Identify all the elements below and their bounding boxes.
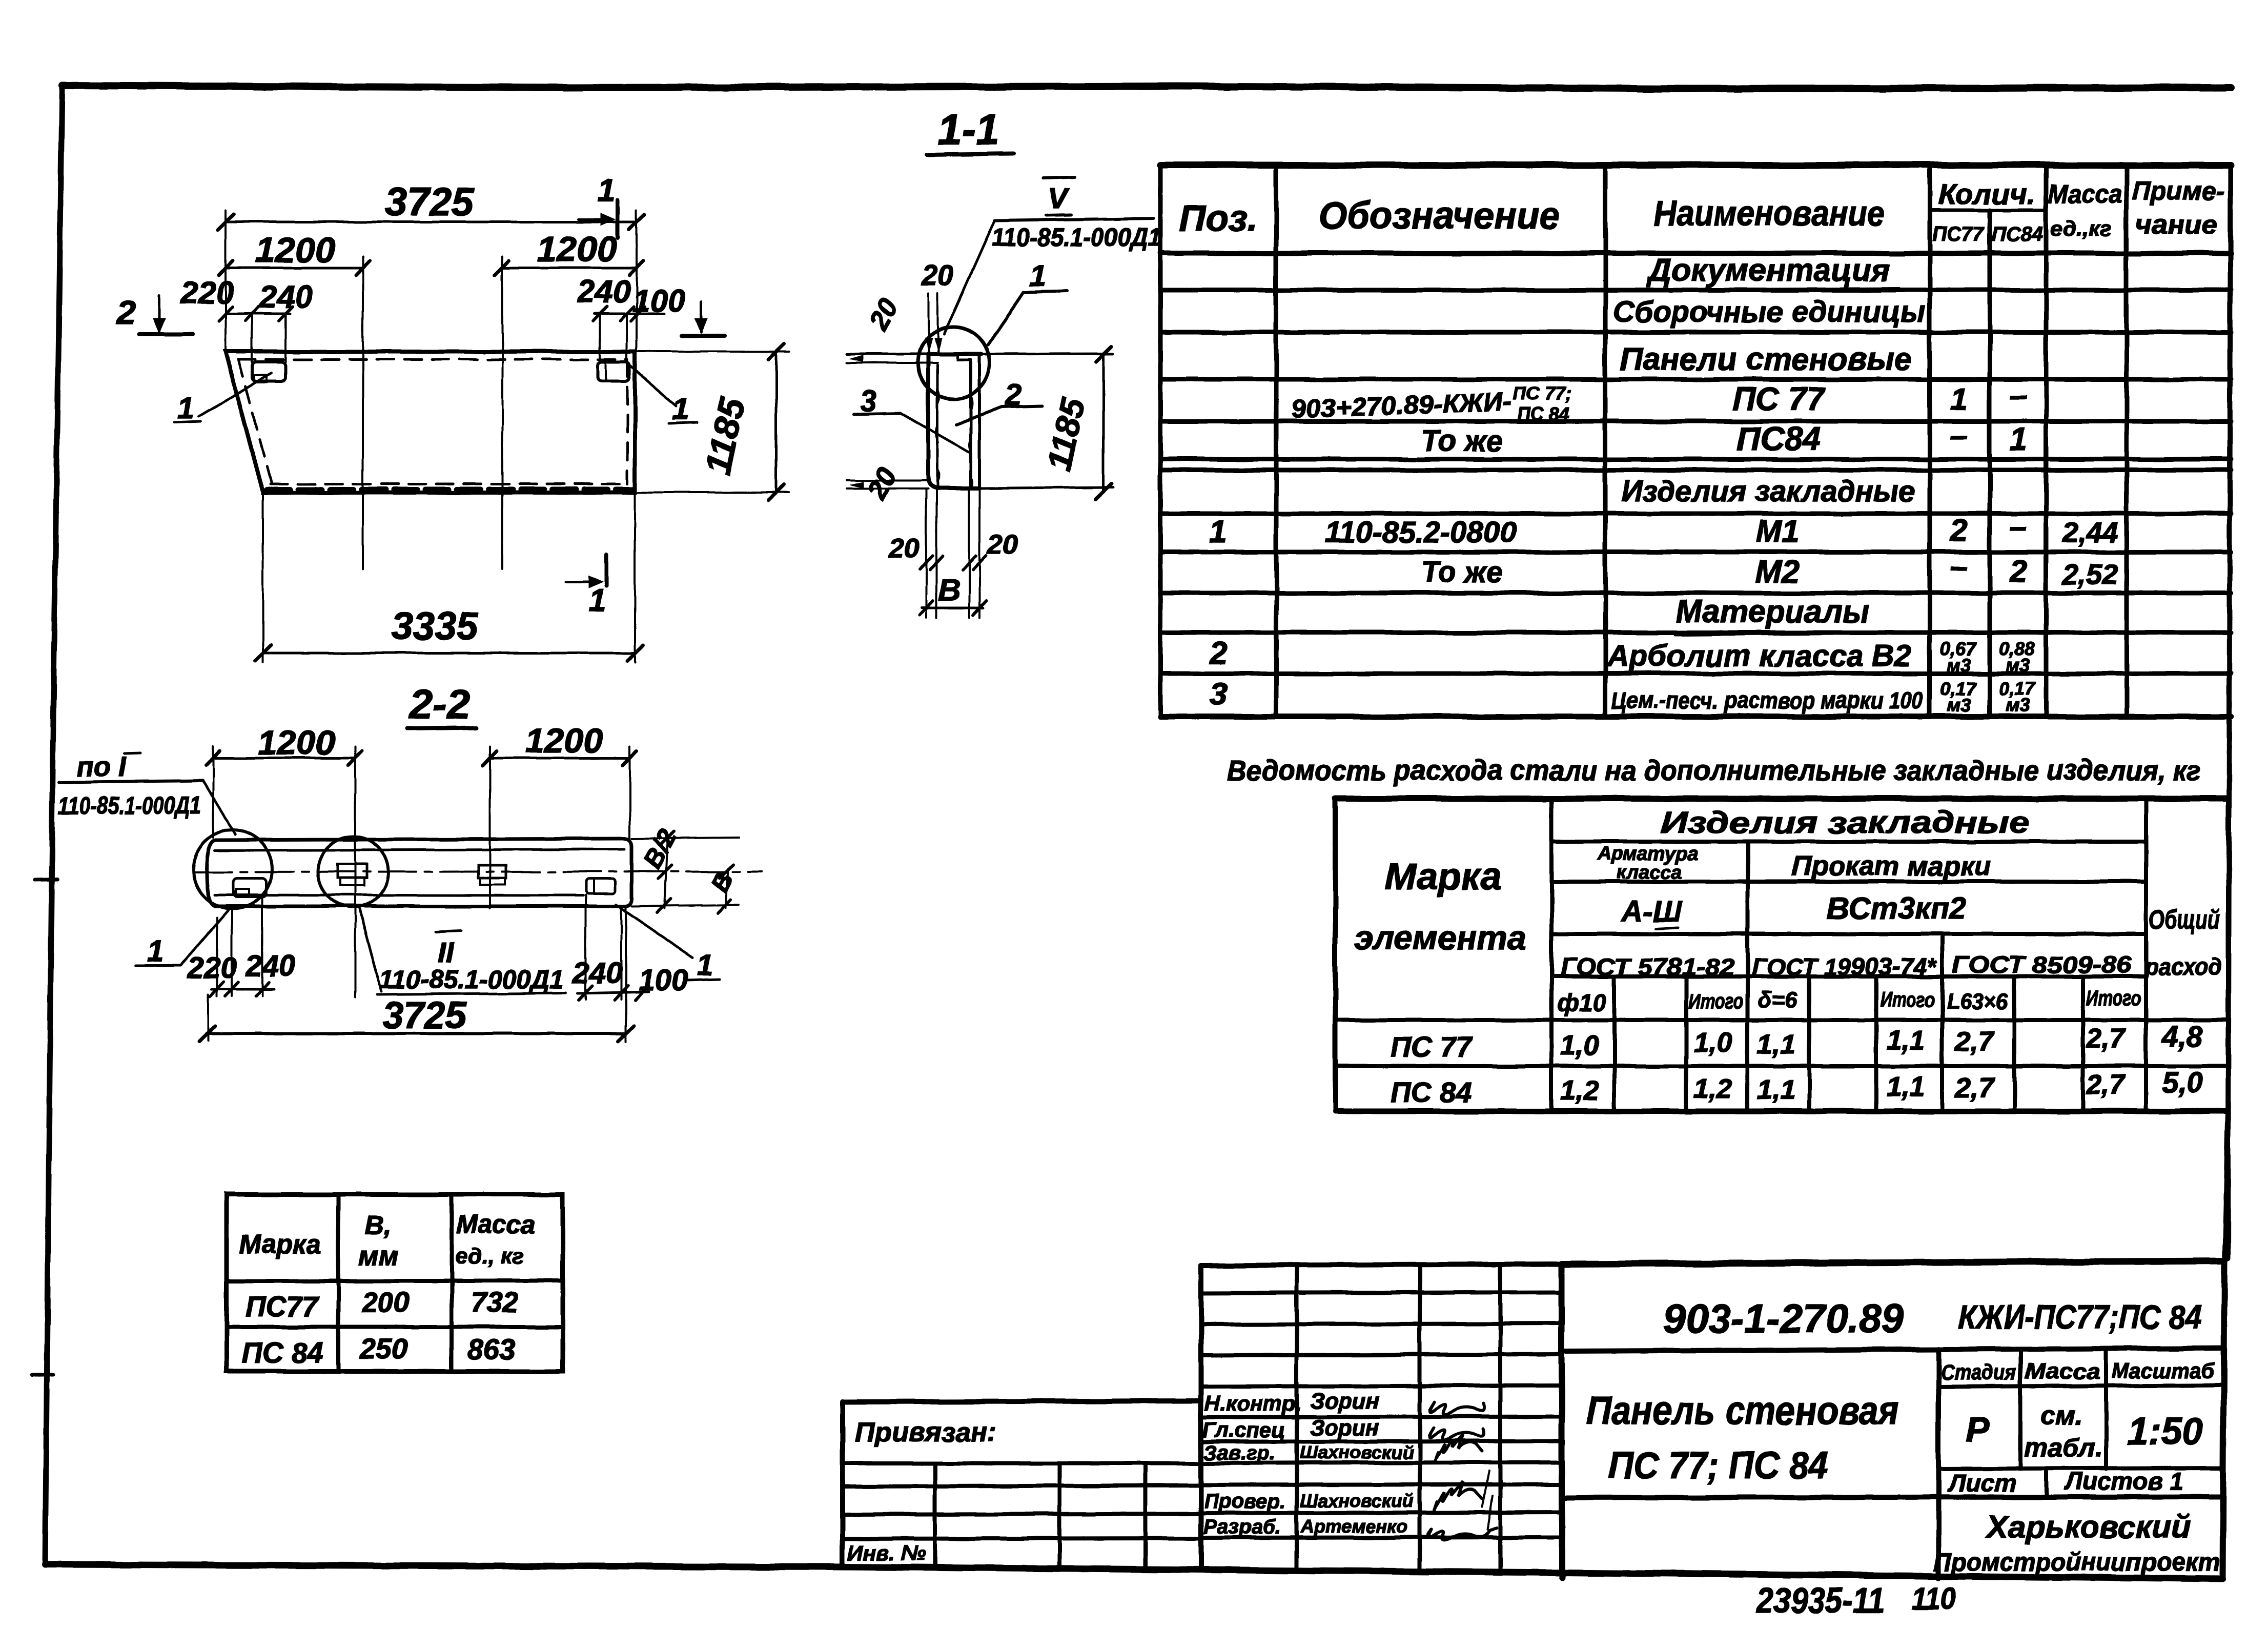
svg-text:1: 1 [697,948,713,982]
svg-text:Марка: Марка [1385,855,1502,898]
svg-text:Документация: Документация [1646,253,1890,288]
svg-text:Гл.спец: Гл.спец [1202,1418,1285,1442]
dim 240 100 right [595,313,664,315]
svg-text:2: 2 [1209,636,1227,671]
svg-text:Марка: Марка [239,1230,321,1259]
svg-text:2: 2 [116,293,136,331]
svg-text:20: 20 [987,529,1018,560]
svg-text:100: 100 [639,964,688,997]
dim B/2 and B right [632,838,739,839]
svg-text:Р: Р [1966,1409,1990,1449]
panel outline [226,352,635,493]
svg-text:110-85.1-000Д1: 110-85.1-000Д1 [58,792,201,820]
svg-text:по I: по I [77,751,127,782]
svg-text:Разраб.: Разраб. [1203,1516,1281,1538]
embedded plate M1 left [253,362,285,381]
dim 1200 left [213,757,355,760]
panel inner dashed outline [238,359,627,484]
dim 220 240 left [212,988,274,991]
svg-text:1,1: 1,1 [1757,1074,1795,1105]
section 1 marker bottom [566,581,599,583]
svg-text:Изделия закладные: Изделия закладные [1661,805,2030,840]
svg-text:Итого: Итого [1688,989,1744,1013]
svg-text:110-85.1-000Д1: 110-85.1-000Д1 [992,223,1161,252]
svg-text:Колич.: Колич. [1938,178,2035,210]
fold mark tick upper [35,880,57,880]
leader 1 bottom left [180,908,230,966]
svg-text:То же: То же [1421,556,1503,589]
svg-text:чание: чание [2135,210,2217,240]
svg-text:200: 200 [361,1286,410,1318]
leader 1 bottom right [616,905,693,958]
svg-text:То же: То же [1421,424,1503,458]
svg-text:1: 1 [672,392,689,426]
svg-text:Материалы: Материалы [1676,594,1869,629]
svg-text:Шахновский: Шахновский [1300,1442,1414,1463]
dim 20 left top [847,353,928,356]
svg-text:элемента: элемента [1355,919,1526,956]
dim 3335 bottom [262,493,264,662]
dim 220 240 left [226,313,290,315]
steel table header texts [1355,805,2222,1016]
svg-text:–: – [1950,418,1968,453]
svg-text:ПС84: ПС84 [1992,223,2043,246]
embedded plate symbol mid1 [338,864,367,878]
bottom dims 20 20 B [925,489,927,618]
svg-text:220: 220 [180,275,233,311]
svg-text:2: 2 [1950,513,1968,548]
svg-text:Арболит класса В2: Арболит класса В2 [1606,639,1911,673]
svg-text:В: В [938,573,960,607]
svg-text:1,0: 1,0 [1560,1030,1599,1061]
svg-text:2,7: 2,7 [2086,1023,2126,1054]
svg-text:2-2: 2-2 [408,681,471,728]
svg-text:Стадия: Стадия [1940,1360,2016,1384]
small mass table grid [227,1194,563,1371]
svg-text:см.: см. [2040,1400,2082,1430]
svg-text:м3: м3 [1947,695,1971,716]
title block stage/mass/scale [1938,1349,2223,1469]
svg-text:1,2: 1,2 [1560,1075,1599,1106]
svg-text:ПС77: ПС77 [1932,223,1985,246]
svg-text:КЖИ-ПС77;ПС 84: КЖИ-ПС77;ПС 84 [1958,1298,2202,1336]
svg-text:ПС 77: ПС 77 [1391,1031,1473,1063]
svg-text:Артеменко: Артеменко [1300,1516,1407,1537]
svg-text:1: 1 [2010,422,2027,457]
svg-text:Итого: Итого [2086,986,2141,1010]
svg-text:240: 240 [573,956,623,990]
callout circle left [193,830,272,909]
svg-text:В,: В, [365,1211,392,1240]
svg-text:Промстройниипроект: Промстройниипроект [1933,1547,2220,1576]
svg-text:Общий: Общий [2149,905,2220,935]
svg-text:м3: м3 [1947,655,1971,676]
callout circle mid [318,837,389,907]
svg-text:Зорин: Зорин [1310,1389,1379,1414]
svg-text:100: 100 [632,283,685,319]
title block name cell [1936,1349,1941,1578]
svg-text:1: 1 [177,391,194,425]
svg-text:3725: 3725 [385,179,475,224]
svg-text:ед.,кг: ед.,кг [2050,216,2112,240]
strip centerline [194,871,762,872]
svg-text:2,7: 2,7 [1954,1026,1995,1057]
svg-text:863: 863 [467,1333,515,1366]
svg-text:Панель стеновая: Панель стеновая [1586,1388,1899,1433]
svg-text:3335: 3335 [391,605,479,648]
svg-text:240: 240 [246,949,296,983]
svg-text:240: 240 [259,279,312,315]
svg-text:220: 220 [187,951,237,985]
svg-text:240: 240 [577,274,630,310]
svg-text:1-1: 1-1 [937,106,999,154]
svg-text:Зорин: Зорин [1310,1415,1379,1440]
end plate left [233,878,267,897]
end plate right [586,879,616,893]
svg-text:1: 1 [1210,514,1227,549]
svg-text:2: 2 [2009,554,2027,589]
steel table row ПС84 [1391,1066,2203,1108]
svg-text:Приме-: Приме- [2132,176,2224,206]
svg-text:1185: 1185 [1040,394,1092,474]
svg-text:1200: 1200 [255,230,335,270]
svg-text:2,7: 2,7 [2086,1069,2126,1100]
steel table vertical connector to title block [2224,1111,2228,1262]
svg-text:Панели стеновые: Панели стеновые [1620,342,1912,377]
sheet frame bottom border [45,1564,843,1567]
svg-text:5,0: 5,0 [2162,1066,2203,1099]
dim 1200 left [226,267,363,270]
svg-text:1,2: 1,2 [1693,1073,1732,1104]
svg-text:1: 1 [147,935,163,968]
svg-text:Итого: Итого [1880,987,1935,1011]
svg-text:L63×6: L63×6 [1947,989,2009,1014]
panel section profile [928,352,982,356]
svg-text:1,1: 1,1 [1886,1071,1925,1102]
svg-text:ВСт3кп2: ВСт3кп2 [1827,891,1966,925]
svg-text:Шахновский: Шахновский [1300,1490,1414,1511]
svg-text:Прокат марки: Прокат марки [1791,851,1991,882]
svg-text:1200: 1200 [257,723,335,762]
svg-text:δ=6: δ=6 [1758,988,1797,1013]
section 2 marker right [700,302,703,332]
dim 1185 section [1102,354,1105,491]
svg-text:Масса: Масса [2048,179,2122,209]
svg-text:1,0: 1,0 [1693,1027,1732,1058]
svg-text:1: 1 [1029,259,1046,293]
dim 3725 bottom [207,1032,626,1035]
svg-text:2,44: 2,44 [2062,516,2118,548]
svg-text:ГОСТ 5781-82: ГОСТ 5781-82 [1560,953,1734,980]
svg-text:ПС 84: ПС 84 [1517,403,1569,424]
svg-text:2,7: 2,7 [1954,1072,1995,1103]
svg-text:20: 20 [863,293,905,335]
steel table grid [1335,799,2228,1111]
svg-text:Харьковский: Харьковский [1985,1510,2190,1545]
edge cleanup masks [0,0,2268,4]
svg-text:V: V [1048,182,1070,214]
callout circle [918,327,990,399]
svg-text:ПС 77: ПС 77 [1732,380,1827,417]
svg-text:Лист: Лист [1947,1470,2016,1497]
svg-text:3: 3 [1210,677,1227,712]
spec table header texts [1179,176,2224,246]
signature grid [1201,1264,1562,1572]
svg-text:1: 1 [588,583,606,618]
dim 1200 right [490,757,630,760]
svg-text:Листов 1: Листов 1 [2064,1468,2183,1495]
svg-text:В/2: В/2 [638,824,682,873]
svg-text:1:50: 1:50 [2127,1410,2203,1453]
svg-text:м3: м3 [2006,655,2030,676]
svg-text:Масса: Масса [2025,1359,2100,1384]
specification table grid [1160,165,2231,717]
svg-text:110: 110 [1912,1581,1956,1617]
callout line 110-85.1-000Д1 [995,218,1153,220]
svg-text:ф10: ф10 [1557,989,1606,1016]
svg-text:Провер.: Провер. [1204,1490,1286,1513]
svg-text:903-1-270.89: 903-1-270.89 [1663,1296,1905,1341]
svg-text:ПС 77;: ПС 77; [1513,383,1571,404]
svg-text:Масса: Масса [456,1210,535,1238]
svg-text:Ведомость расхода стали на доп: Ведомость расхода стали на дополнительны… [1227,754,2201,786]
svg-text:23935-11: 23935-11 [1755,1580,1885,1620]
svg-text:Наименование: Наименование [1654,193,1885,233]
svg-text:А-Ш: А-Ш [1620,895,1682,928]
sheet frame left border [45,86,62,1564]
svg-text:1200: 1200 [537,229,617,269]
svg-text:903+270.89-КЖИ-: 903+270.89-КЖИ- [1291,388,1513,424]
steel table row ПС77 [1391,1020,2203,1063]
svg-text:20: 20 [888,533,920,564]
svg-text:–: – [2010,378,2027,413]
svg-text:20: 20 [921,259,953,291]
panel bottom broken edge hatch [267,487,633,493]
svg-text:ПС 84: ПС 84 [1391,1076,1472,1108]
fold mark tick lower [32,1374,53,1375]
svg-text:4,8: 4,8 [2161,1020,2203,1053]
svg-text:–: – [1950,549,1968,584]
title block outer [843,1261,2224,1579]
svg-text:110-85.2-0800: 110-85.2-0800 [1325,516,1516,549]
sheet frame top border [62,86,2231,89]
svg-text:Масштаб: Масштаб [2112,1358,2215,1382]
svg-text:Изделия закладные: Изделия закладные [1621,475,1916,508]
right border line [2228,165,2231,1258]
svg-text:Поз.: Поз. [1179,198,1258,239]
signature squiggles [1428,1402,1497,1540]
svg-text:732: 732 [471,1286,518,1318]
svg-text:табл.: табл. [2024,1433,2102,1463]
svg-text:II: II [437,936,454,969]
dim 3725 top [226,221,637,223]
svg-text:Обозначение: Обозначение [1319,194,1560,237]
svg-text:М1: М1 [1755,514,1800,549]
svg-text:Инв. №: Инв. № [848,1541,926,1565]
svg-text:110-85.1-000Д1: 110-85.1-000Д1 [379,965,564,994]
svg-text:250: 250 [359,1332,407,1364]
svg-text:1: 1 [598,173,615,208]
svg-text:Сборочные единицы: Сборочные единицы [1613,295,1926,329]
svg-text:Цем.-песч. раствор марки 100: Цем.-песч. раствор марки 100 [1611,687,1923,714]
svg-text:Привязан:: Привязан: [855,1417,997,1448]
dim 1185 right [638,351,789,353]
dim 240 100 right [578,992,649,993]
svg-text:ПС84: ПС84 [1736,420,1820,457]
title block doc number cell [1562,1348,2223,1351]
svg-text:мм: мм [359,1241,398,1271]
svg-text:3725: 3725 [382,994,467,1036]
svg-text:2,52: 2,52 [2062,558,2118,590]
svg-text:ед., кг: ед., кг [455,1244,524,1269]
embedded plate symbol mid2 [478,865,506,878]
svg-text:ПС77: ПС77 [245,1290,320,1322]
svg-text:класса: класса [1617,862,1682,883]
svg-text:1: 1 [1950,382,1968,417]
strip outline [207,840,216,906]
svg-text:Н.контр.: Н.контр. [1204,1391,1301,1415]
svg-text:м3: м3 [2006,695,2030,716]
svg-text:ГОСТ 19903-74*: ГОСТ 19903-74* [1752,953,1937,980]
svg-text:М2: М2 [1755,554,1800,589]
mortar texture [936,390,973,489]
svg-text:расход: расход [2144,953,2222,980]
svg-text:1185: 1185 [698,393,753,478]
svg-text:1,1: 1,1 [1757,1029,1795,1060]
svg-text:ПС 77; ПС 84: ПС 77; ПС 84 [1608,1444,1828,1486]
embedded plate M1 right [598,362,629,381]
svg-text:ГОСТ 8509-86: ГОСТ 8509-86 [1952,951,2132,978]
leader 1 to right plate [630,366,677,406]
svg-text:–: – [2010,509,2027,544]
dim 20 left bottom [847,479,928,481]
svg-text:Зав.гр.: Зав.гр. [1203,1442,1275,1464]
title block left extension [843,1401,1201,1568]
svg-text:1,1: 1,1 [1886,1025,1925,1056]
leader 1 to left plate [199,373,272,416]
dim 1200 right [502,267,637,270]
svg-text:20: 20 [861,462,903,504]
svg-text:1200: 1200 [525,721,602,760]
svg-text:ПС 84: ПС 84 [242,1336,323,1369]
title block sheet row [2045,1469,2049,1497]
